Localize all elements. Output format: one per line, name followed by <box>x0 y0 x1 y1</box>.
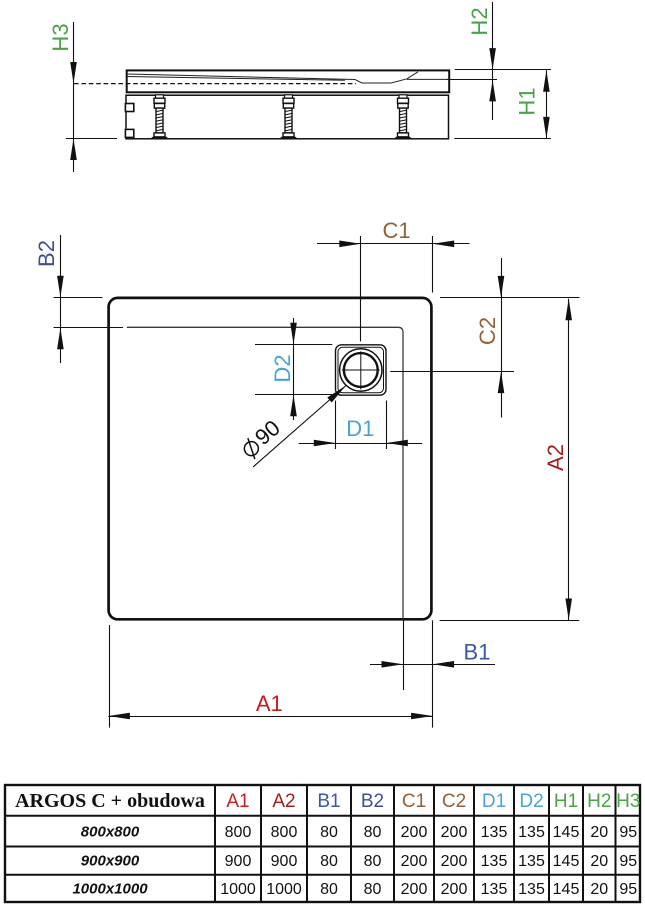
svg-text:A1: A1 <box>256 691 283 716</box>
housing clip top <box>125 104 133 112</box>
svg-text:D2: D2 <box>270 354 295 382</box>
svg-text:H3: H3 <box>48 23 73 51</box>
adjustable foot 1 <box>152 95 168 139</box>
svg-text:H1: H1 <box>554 791 578 812</box>
table row 900x900 <box>81 853 638 871</box>
svg-text:200: 200 <box>441 853 468 870</box>
svg-text:135: 135 <box>518 853 545 870</box>
svg-text:20: 20 <box>590 824 608 841</box>
drain assembly <box>336 345 387 395</box>
table grid <box>5 785 640 902</box>
svg-text:H1: H1 <box>515 87 540 115</box>
svg-text:D1: D1 <box>346 416 374 441</box>
svg-text:C1: C1 <box>402 791 426 812</box>
adjustable foot 3 <box>395 95 411 139</box>
dimension D1 <box>299 401 422 450</box>
rim inner line <box>127 327 403 619</box>
svg-text:135: 135 <box>518 824 545 841</box>
svg-text:B2: B2 <box>34 240 59 267</box>
svg-text:145: 145 <box>553 853 580 870</box>
svg-text:C1: C1 <box>382 218 410 243</box>
dimension A2 <box>440 298 580 621</box>
svg-text:D2: D2 <box>519 791 543 812</box>
dimension C2 <box>390 258 514 418</box>
svg-text:145: 145 <box>553 881 580 898</box>
svg-text:900: 900 <box>271 853 298 870</box>
svg-text:80: 80 <box>364 853 382 870</box>
svg-text:135: 135 <box>481 853 508 870</box>
table row 1000x1000 <box>72 881 637 899</box>
svg-text:800: 800 <box>271 824 298 841</box>
svg-text:900x900: 900x900 <box>81 853 140 870</box>
svg-text:80: 80 <box>320 824 338 841</box>
svg-text:135: 135 <box>481 824 508 841</box>
svg-text:1000: 1000 <box>220 881 256 898</box>
dimension D2 <box>255 318 332 420</box>
housing clip bottom <box>125 129 133 137</box>
svg-text:200: 200 <box>441 881 468 898</box>
svg-text:A2: A2 <box>543 444 568 471</box>
svg-text:135: 135 <box>481 881 508 898</box>
svg-text:95: 95 <box>619 881 637 898</box>
svg-text:A2: A2 <box>272 791 295 812</box>
svg-text:80: 80 <box>320 881 338 898</box>
water level dashed line <box>74 83 356 85</box>
dimension H2 <box>447 2 551 120</box>
tray plan outline <box>109 298 432 619</box>
svg-text:B1: B1 <box>317 791 340 812</box>
svg-text:145: 145 <box>553 824 580 841</box>
svg-text:20: 20 <box>590 881 608 898</box>
svg-text:800: 800 <box>225 824 252 841</box>
dimension H3 <box>48 22 117 172</box>
svg-text:80: 80 <box>364 881 382 898</box>
diameter note Ø90 <box>237 386 346 468</box>
svg-text:20: 20 <box>590 853 608 870</box>
svg-text:80: 80 <box>320 853 338 870</box>
svg-text:80: 80 <box>364 824 382 841</box>
svg-text:95: 95 <box>619 824 637 841</box>
svg-text:135: 135 <box>518 881 545 898</box>
svg-text:D1: D1 <box>482 791 506 812</box>
svg-text:1000: 1000 <box>266 881 302 898</box>
dimension H1 <box>454 70 551 138</box>
housing panel <box>126 95 449 139</box>
dimension B1 <box>370 619 495 728</box>
svg-text:95: 95 <box>619 853 637 870</box>
svg-text:800x800: 800x800 <box>81 824 140 841</box>
svg-text:C2: C2 <box>475 317 500 345</box>
dimension C1 <box>317 218 469 341</box>
svg-text:900: 900 <box>225 853 252 870</box>
svg-text:H2: H2 <box>467 7 492 35</box>
tray basin slope lines <box>127 72 449 83</box>
svg-text:A1: A1 <box>226 791 249 812</box>
svg-text:C2: C2 <box>442 791 466 812</box>
adjustable foot 2 <box>281 95 297 139</box>
svg-text:B2: B2 <box>361 791 384 812</box>
svg-text:200: 200 <box>441 824 468 841</box>
svg-text:H3: H3 <box>616 791 640 812</box>
svg-text:200: 200 <box>401 824 428 841</box>
svg-text:ARGOS C + obudowa: ARGOS C + obudowa <box>15 790 205 812</box>
svg-text:200: 200 <box>401 853 428 870</box>
table row 800x800 <box>81 824 638 842</box>
dimension B2 <box>34 235 123 363</box>
svg-text:B1: B1 <box>464 640 491 665</box>
svg-text:1000x1000: 1000x1000 <box>72 881 148 898</box>
dimension A1 <box>108 625 432 728</box>
svg-text:H2: H2 <box>587 791 611 812</box>
tray side outline <box>127 70 450 92</box>
svg-text:200: 200 <box>401 881 428 898</box>
